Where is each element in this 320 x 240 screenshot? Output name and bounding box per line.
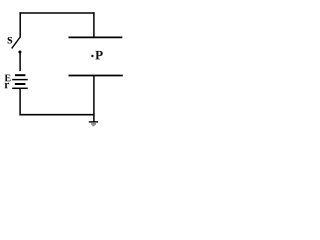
- wire bottom: [19, 114, 94, 116]
- battery plate 1 short thick (top): [15, 74, 26, 76]
- label r: [5, 83, 10, 89]
- wire right upper (top wire to capacitor): [93, 12, 95, 37]
- wire left mid (dot to battery): [19, 52, 21, 71]
- wire left lower (battery to bottom): [19, 88, 21, 115]
- ground bar 2: [91, 123, 96, 125]
- ground bar 1: [89, 121, 98, 123]
- wire right lower (bottom plate through bottom wire to ground): [93, 76, 95, 122]
- switch S blade (open): [12, 37, 21, 48]
- capacitor top plate: [69, 36, 123, 38]
- capacitor bottom plate: [69, 75, 123, 77]
- battery plate 3 short thick: [15, 83, 26, 85]
- label E: [5, 75, 11, 82]
- battery plate 2 long: [12, 79, 28, 81]
- battery plate 4 long: [12, 87, 28, 89]
- node P dot: [91, 55, 93, 57]
- label s: [8, 37, 13, 44]
- switch S lower contact dot: [18, 51, 21, 54]
- wire top: [19, 12, 94, 14]
- wire left upper (rail to switch): [19, 12, 21, 37]
- label P: [95, 51, 102, 60]
- ground bar 3: [92, 125, 94, 127]
